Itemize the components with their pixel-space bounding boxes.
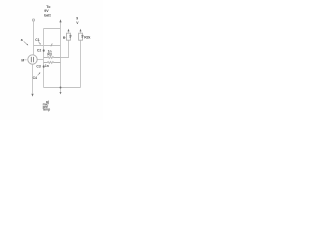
resistor R2 box xyxy=(79,33,83,40)
resistor R3 xyxy=(44,57,61,59)
wire xyxy=(60,88,62,93)
svg-text:R3: R3 xyxy=(47,53,51,57)
svg-text:M: M xyxy=(21,59,24,63)
arrow down mic lead xyxy=(31,94,33,97)
wire xyxy=(37,59,43,61)
svg-text:C3: C3 xyxy=(36,65,40,69)
svg-text:C1: C1 xyxy=(35,38,39,42)
arrowhead C1 xyxy=(39,43,41,45)
arrow up R1 xyxy=(68,29,70,32)
svg-text:amp: amp xyxy=(43,108,50,112)
capacitor C3 blob xyxy=(43,65,45,68)
wire xyxy=(60,22,62,88)
arrow up R2 xyxy=(80,29,82,32)
resistor R4 xyxy=(44,62,61,64)
wire xyxy=(34,45,61,47)
label dash R1 xyxy=(65,36,66,38)
label dash xyxy=(24,59,26,61)
svg-text:batt: batt xyxy=(44,14,51,18)
svg-text:C2: C2 xyxy=(37,48,41,52)
wire xyxy=(43,29,45,88)
svg-text:C4: C4 xyxy=(33,76,37,80)
slash on wire xyxy=(51,44,53,47)
pointer arrow S1 xyxy=(24,41,28,44)
terminal TP1 xyxy=(32,19,34,21)
wire xyxy=(80,40,82,87)
svg-text:1k: 1k xyxy=(68,35,72,39)
resistor R1 box xyxy=(67,33,71,40)
wire xyxy=(44,28,61,30)
svg-text:9V: 9V xyxy=(44,9,49,13)
arrow up supply at node xyxy=(59,19,61,22)
wire xyxy=(32,64,34,93)
wire xyxy=(44,87,81,89)
svg-text:1k: 1k xyxy=(81,35,85,39)
svg-text:a: a xyxy=(21,38,23,42)
arrowhead C4 xyxy=(39,72,41,74)
svg-text:1n: 1n xyxy=(45,64,49,68)
pointer arrow C1 xyxy=(38,41,40,44)
junction dot xyxy=(60,87,62,89)
capacitor C2 blob xyxy=(43,49,45,52)
arrowhead S1 xyxy=(27,44,29,46)
wire xyxy=(33,21,35,55)
microphone M1 xyxy=(28,55,37,64)
pointer arrow C4 xyxy=(38,73,40,75)
arrow down rail stub xyxy=(60,92,62,94)
wire xyxy=(61,40,69,57)
